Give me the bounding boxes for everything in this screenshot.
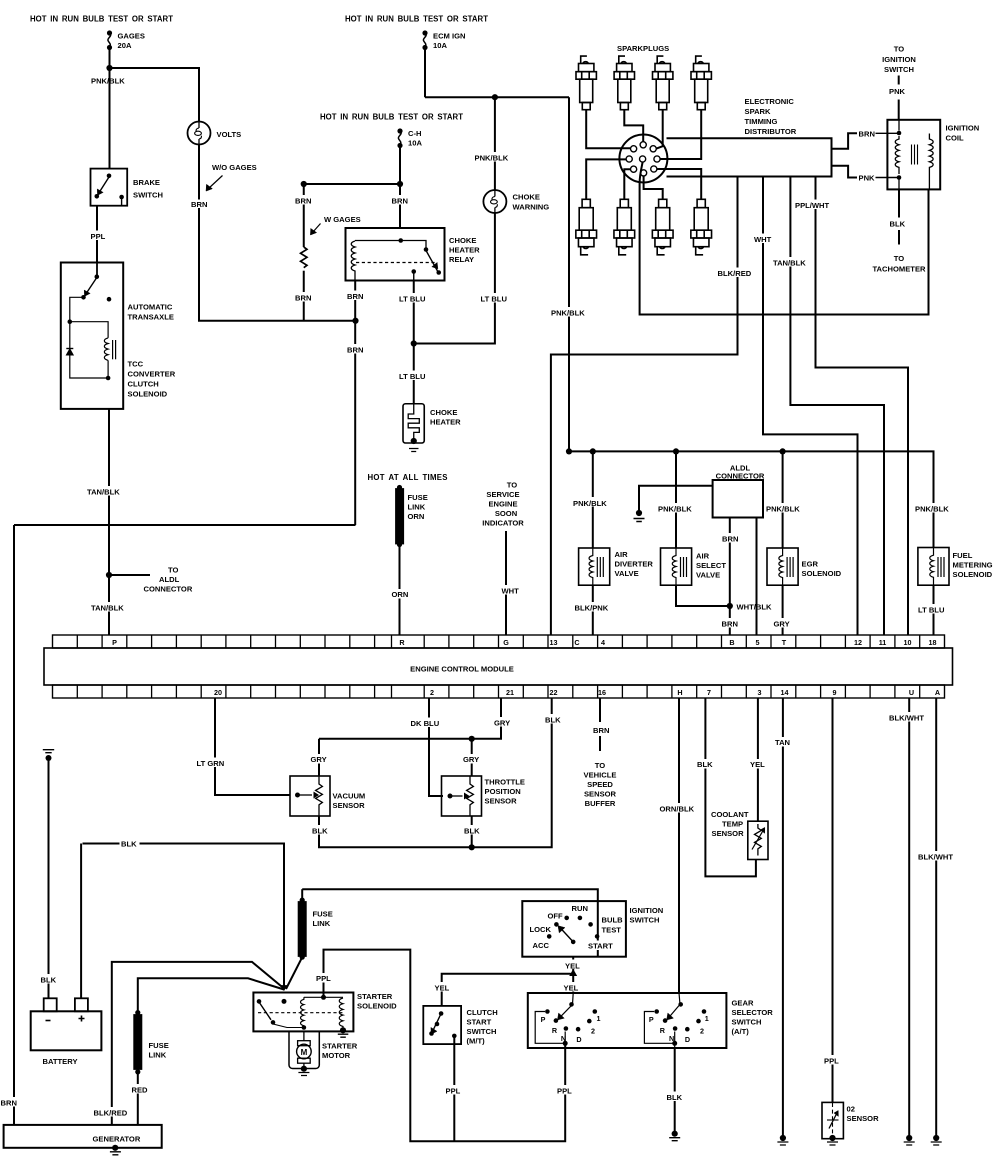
svg-text:GRY: GRY [774,620,790,629]
svg-text:CHOKE: CHOKE [430,408,457,417]
svg-text:ENGINE: ENGINE [488,500,517,509]
svg-text:WARNING: WARNING [513,203,550,212]
svg-text:BLK: BLK [121,840,137,849]
svg-text:HOT IN RUN BULB TEST OR START: HOT IN RUN BULB TEST OR START [30,15,173,24]
svg-text:PPL/WHT: PPL/WHT [795,201,830,210]
svg-text:3: 3 [758,688,762,697]
svg-text:FUSE: FUSE [313,910,333,919]
svg-text:BRN: BRN [859,129,875,138]
svg-text:THROTTLE: THROTTLE [485,778,526,787]
svg-text:SELECT: SELECT [696,561,726,570]
svg-text:SWITCH: SWITCH [467,1027,497,1036]
svg-text:PPL: PPL [557,1087,572,1096]
svg-text:SOLENOID: SOLENOID [128,390,168,399]
svg-text:SERVICE: SERVICE [486,490,519,499]
svg-text:SENSOR: SENSOR [712,829,745,838]
svg-text:LT BLU: LT BLU [399,372,426,381]
svg-text:HOT IN RUN BULB TEST OR START: HOT IN RUN BULB TEST OR START [320,113,463,122]
svg-text:CHOKE: CHOKE [513,193,540,202]
svg-text:HEATER: HEATER [449,246,480,255]
svg-text:BRN: BRN [593,726,609,735]
svg-text:P: P [541,1015,546,1024]
svg-text:BLK: BLK [667,1093,683,1102]
svg-text:GRY: GRY [463,755,479,764]
svg-text:BLK/WHT: BLK/WHT [889,714,924,723]
svg-text:BRN: BRN [722,620,738,629]
svg-text:20A: 20A [118,41,132,50]
svg-text:HOT AT ALL TIMES: HOT AT ALL TIMES [368,473,448,482]
svg-text:BLK: BLK [697,760,713,769]
svg-text:C-H: C-H [408,129,422,138]
svg-text:TO: TO [507,481,518,490]
svg-text:R: R [552,1026,558,1035]
svg-text:PNK/BLK: PNK/BLK [573,499,607,508]
svg-text:YEL: YEL [564,984,579,993]
svg-text:TCC: TCC [128,360,144,369]
svg-text:PNK: PNK [859,174,876,183]
svg-text:D: D [685,1035,690,1044]
svg-text:LT GRN: LT GRN [197,759,225,768]
svg-text:T: T [782,638,787,647]
svg-text:BRN: BRN [347,292,363,301]
svg-text:C: C [574,638,579,647]
svg-text:SWITCH: SWITCH [732,1018,762,1027]
svg-text:VEHICLE: VEHICLE [584,771,617,780]
svg-text:P: P [112,638,117,647]
svg-text:PNK/BLK: PNK/BLK [551,309,585,318]
svg-text:(M/T): (M/T) [467,1037,486,1046]
svg-text:PPL: PPL [824,1057,839,1066]
svg-text:TEMP: TEMP [722,820,743,829]
svg-text:YEL: YEL [435,984,450,993]
svg-text:FUSE: FUSE [408,493,428,502]
svg-text:BRN: BRN [295,294,311,303]
svg-text:16: 16 [598,688,606,697]
svg-text:AUTOMATIC: AUTOMATIC [128,303,173,312]
svg-text:ALDL: ALDL [159,575,180,584]
svg-text:GENERATOR: GENERATOR [93,1135,141,1144]
svg-text:PNK/BLK: PNK/BLK [91,77,125,86]
svg-text:CONVERTER: CONVERTER [128,370,176,379]
svg-text:BUFFER: BUFFER [585,799,616,808]
svg-text:BRN: BRN [392,197,408,206]
svg-text:COOLANT: COOLANT [711,810,749,819]
svg-text:TACHOMETER: TACHOMETER [872,265,926,274]
svg-text:LT BLU: LT BLU [481,295,508,304]
svg-text:VALVE: VALVE [696,571,720,580]
svg-text:COIL: COIL [946,134,965,143]
svg-text:20: 20 [214,688,222,697]
svg-text:BLK/RED: BLK/RED [718,269,752,278]
svg-text:FUEL: FUEL [953,551,973,560]
svg-text:TAN/BLK: TAN/BLK [87,488,120,497]
svg-text:ECM IGN: ECM IGN [433,32,466,41]
svg-text:PNK/BLK: PNK/BLK [658,505,692,514]
svg-text:PNK/BLK: PNK/BLK [915,505,949,514]
svg-text:SPEED: SPEED [587,780,613,789]
svg-text:1: 1 [597,1014,601,1023]
svg-text:10A: 10A [433,41,447,50]
svg-text:HEATER: HEATER [430,418,461,427]
svg-text:CLUTCH: CLUTCH [467,1008,498,1017]
svg-text:AIR: AIR [696,552,710,561]
svg-text:ACC: ACC [533,941,550,950]
svg-text:2: 2 [591,1027,595,1036]
svg-text:10: 10 [904,638,912,647]
svg-text:PNK: PNK [889,87,906,96]
svg-text:SWITCH: SWITCH [884,65,914,74]
svg-text:TAN/BLK: TAN/BLK [773,259,806,268]
svg-text:GEAR: GEAR [732,999,754,1008]
svg-text:2: 2 [700,1027,704,1036]
svg-text:TO: TO [894,254,905,263]
svg-text:PNK/BLK: PNK/BLK [475,154,509,163]
svg-text:YEL: YEL [750,760,765,769]
svg-text:LOCK: LOCK [530,925,552,934]
svg-text:TO: TO [595,761,606,770]
svg-text:VACUUM: VACUUM [333,792,366,801]
svg-text:BRN: BRN [191,200,207,209]
svg-text:H: H [677,688,682,697]
svg-text:BRN: BRN [347,346,363,355]
svg-text:SOON: SOON [495,509,517,518]
svg-text:EGR: EGR [802,560,819,569]
svg-text:BLK: BLK [41,976,57,985]
svg-text:22: 22 [550,688,558,697]
svg-text:DK BLU: DK BLU [411,719,440,728]
svg-text:BLK: BLK [890,220,906,229]
svg-text:(A/T): (A/T) [732,1027,750,1036]
svg-text:DISTRIBUTOR: DISTRIBUTOR [745,127,797,136]
svg-text:SENSOR: SENSOR [485,797,518,806]
svg-text:BLK/PNK: BLK/PNK [575,604,609,613]
svg-text:START: START [467,1018,492,1027]
svg-text:LT BLU: LT BLU [918,606,945,615]
svg-text:7: 7 [707,688,711,697]
svg-text:SWITCH: SWITCH [133,191,163,200]
svg-text:BULB: BULB [602,916,624,925]
svg-text:START: START [588,942,613,951]
svg-text:SENSOR: SENSOR [333,801,366,810]
svg-text:YEL: YEL [565,962,580,971]
svg-text:TIMMING: TIMMING [745,117,778,126]
svg-text:CLUTCH: CLUTCH [128,380,159,389]
svg-text:CONNECTOR: CONNECTOR [144,585,193,594]
svg-text:PPL: PPL [446,1087,461,1096]
svg-text:RELAY: RELAY [449,255,474,264]
svg-text:A: A [935,688,940,697]
svg-text:ENGINE CONTROL MODULE: ENGINE CONTROL MODULE [410,665,514,674]
svg-text:TRANSAXLE: TRANSAXLE [128,313,174,322]
svg-text:OFF: OFF [548,912,564,921]
svg-text:IGNITION: IGNITION [946,124,980,133]
svg-text:LINK: LINK [313,919,331,928]
svg-text:TO: TO [168,566,179,575]
svg-text:VALVE: VALVE [615,569,639,578]
svg-text:5: 5 [756,638,760,647]
svg-text:TAN/BLK: TAN/BLK [91,604,124,613]
svg-text:BATTERY: BATTERY [43,1057,78,1066]
svg-text:2: 2 [430,688,434,697]
svg-text:B: B [729,638,734,647]
svg-text:FUSE: FUSE [149,1041,169,1050]
svg-text:12: 12 [854,638,862,647]
svg-text:IGNITION: IGNITION [630,906,664,915]
svg-text:PPL: PPL [316,974,331,983]
svg-text:STARTER: STARTER [322,1042,358,1051]
svg-text:21: 21 [506,688,514,697]
svg-text:RUN: RUN [572,904,588,913]
svg-text:BLK/WHT: BLK/WHT [918,853,953,862]
svg-text:PNK/BLK: PNK/BLK [766,505,800,514]
svg-text:G: G [503,638,509,647]
svg-text:IGNITION: IGNITION [882,55,916,64]
svg-text:BRAKE: BRAKE [133,178,160,187]
svg-text:WHT: WHT [502,587,520,596]
svg-text:SPARK: SPARK [745,107,772,116]
svg-text:BRN: BRN [722,535,738,544]
svg-text:SENSOR: SENSOR [847,1114,880,1123]
svg-text:DIVERTER: DIVERTER [615,560,654,569]
svg-text:SOLENOID: SOLENOID [357,1002,397,1011]
svg-text:ORN: ORN [392,590,409,599]
svg-text:02: 02 [847,1105,855,1114]
svg-text:TEST: TEST [602,926,622,935]
svg-text:W GAGES: W GAGES [324,215,361,224]
svg-text:AIR: AIR [615,550,629,559]
svg-text:METERING: METERING [953,561,993,570]
svg-text:INDICATOR: INDICATOR [482,519,524,528]
svg-text:W/O GAGES: W/O GAGES [212,163,257,172]
svg-text:LINK: LINK [149,1051,167,1060]
svg-text:HOT IN RUN BULB TEST OR START: HOT IN RUN BULB TEST OR START [345,15,488,24]
svg-text:SELECTOR: SELECTOR [732,1008,774,1017]
svg-text:R: R [660,1026,666,1035]
svg-text:R: R [399,638,405,647]
svg-text:ELECTRONIC: ELECTRONIC [745,97,795,106]
svg-text:BLK: BLK [464,827,480,836]
svg-text:TO: TO [894,45,905,54]
svg-text:GRY: GRY [494,719,510,728]
svg-text:GAGES: GAGES [118,32,145,41]
svg-text:1: 1 [705,1014,709,1023]
svg-text:PPL: PPL [91,232,106,241]
svg-text:BLK: BLK [312,827,328,836]
svg-text:SOLENOID: SOLENOID [802,569,842,578]
svg-text:RED: RED [132,1086,149,1095]
svg-text:BLK/RED: BLK/RED [94,1109,128,1118]
svg-text:4: 4 [601,638,605,647]
svg-text:CONNECTOR: CONNECTOR [716,472,765,481]
svg-text:STARTER: STARTER [357,992,393,1001]
svg-text:BRN: BRN [295,197,311,206]
svg-text:WHT: WHT [754,235,772,244]
svg-text:11: 11 [879,638,887,647]
svg-text:D: D [576,1035,581,1044]
svg-text:BRN: BRN [1,1099,17,1108]
svg-text:WHT/BLK: WHT/BLK [737,603,773,612]
svg-text:ORN/BLK: ORN/BLK [660,805,695,814]
svg-text:U: U [909,688,914,697]
svg-text:13: 13 [550,638,558,647]
svg-text:N: N [561,1034,566,1043]
svg-text:MOTOR: MOTOR [322,1051,351,1060]
svg-text:SENSOR: SENSOR [584,790,617,799]
svg-text:SWITCH: SWITCH [630,916,660,925]
svg-text:14: 14 [781,688,789,697]
svg-text:SOLENOID: SOLENOID [953,570,993,579]
svg-text:CHOKE: CHOKE [449,236,476,245]
svg-text:VOLTS: VOLTS [217,130,242,139]
svg-text:GRY: GRY [311,755,327,764]
svg-text:LINK: LINK [408,503,426,512]
svg-text:9: 9 [833,688,837,697]
svg-text:P: P [649,1015,654,1024]
svg-text:18: 18 [929,638,937,647]
svg-text:LT BLU: LT BLU [399,295,426,304]
svg-text:N: N [669,1034,674,1043]
svg-text:M: M [301,1048,308,1057]
svg-text:POSITION: POSITION [485,787,521,796]
svg-text:TAN: TAN [775,738,790,747]
svg-text:10A: 10A [408,139,422,148]
svg-text:ORN: ORN [408,512,425,521]
svg-text:SPARKPLUGS: SPARKPLUGS [617,44,669,53]
svg-text:BLK: BLK [545,716,561,725]
